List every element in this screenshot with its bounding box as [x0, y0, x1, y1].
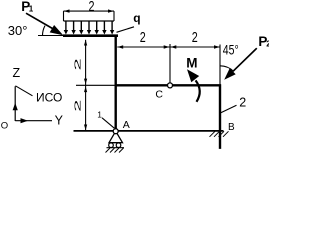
hinge C circle — [168, 83, 173, 88]
vertical dimension shaft — [85, 40, 87, 131]
extension line right end — [219, 45, 221, 85]
leader 2 rod — [221, 105, 237, 113]
svg-text:2: 2 — [266, 40, 269, 49]
support A triangle — [109, 131, 123, 143]
svg-text:B: B — [228, 122, 235, 133]
svg-text:O: O — [1, 121, 8, 132]
support A pin circle — [113, 129, 118, 134]
vertical dim arrows — [84, 40, 87, 46]
label 2 lower vertical — [73, 100, 82, 112]
svg-text:1: 1 — [29, 5, 34, 14]
svg-text:Z: Z — [13, 66, 21, 80]
support A rollers — [109, 143, 114, 148]
svg-text:45°: 45° — [223, 42, 239, 58]
moment M arrow — [196, 80, 200, 101]
bottom line A-B — [74, 130, 224, 132]
extension line at middle beam level — [76, 84, 115, 86]
right rod 2 — [219, 84, 221, 149]
svg-text:2: 2 — [192, 28, 198, 45]
label 2 upper vertical — [73, 58, 82, 70]
label 45deg — [223, 42, 239, 58]
svg-text:A: A — [123, 119, 130, 131]
svg-text:Y: Y — [55, 113, 64, 127]
svg-text:q: q — [133, 11, 140, 25]
svg-text:1: 1 — [97, 109, 102, 119]
svg-text:2: 2 — [88, 0, 94, 15]
middle beam — [115, 84, 222, 86]
extension line from hinge C — [169, 44, 171, 83]
svg-text:2: 2 — [140, 28, 146, 45]
svg-text:M: M — [186, 56, 197, 71]
main column — [114, 35, 116, 132]
30 deg reference line — [38, 35, 64, 37]
svg-text:30°: 30° — [8, 23, 28, 38]
top beam — [63, 34, 118, 37]
ISO leader — [15, 86, 32, 96]
Y axis — [15, 120, 52, 122]
support A hatching — [106, 148, 124, 153]
load arrows q — [66, 21, 112, 31]
horizontal dimension 2,2 — [117, 46, 220, 48]
45 deg arc — [220, 66, 234, 72]
leader 1 — [102, 118, 114, 128]
q leader — [117, 27, 135, 33]
svg-text:ИСО: ИСО — [36, 91, 62, 105]
force P2 arrow — [233, 48, 257, 71]
Z axis — [14, 86, 16, 121]
svg-text:2: 2 — [239, 95, 246, 109]
svg-text:C: C — [155, 89, 163, 101]
support B hatching — [210, 131, 229, 137]
svg-text:2: 2 — [73, 58, 82, 70]
top dimension line 2 — [64, 10, 115, 12]
30 deg arc — [43, 26, 46, 36]
svg-text:2: 2 — [73, 100, 82, 112]
support A ground line — [107, 147, 125, 149]
load line of q — [64, 20, 115, 22]
force P1 arrow — [26, 13, 54, 29]
